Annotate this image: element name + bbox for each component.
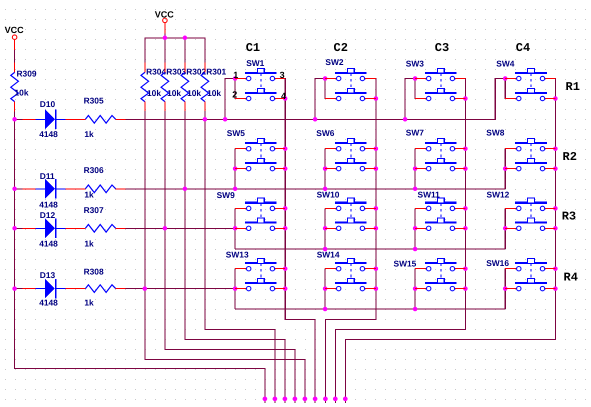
junction C3/SW15 pin3 (463, 266, 468, 271)
switch SW7 (415, 139, 465, 171)
diode D11 (23, 179, 76, 199)
junction row3-link/SW11 (413, 247, 418, 252)
svg-text:1: 1 (233, 70, 238, 80)
svg-text:1k: 1k (84, 239, 94, 249)
wire common vertical (14, 119, 265, 403)
resistor R305 (76, 116, 126, 124)
svg-text:SW3: SW3 (406, 58, 424, 68)
switch SW6 (325, 139, 376, 171)
junction SW7 pin2 (413, 166, 418, 171)
junction SW3 pin1 (413, 76, 418, 81)
junction C2/SW6 pin3 (374, 146, 379, 151)
wire common to D10 (15, 118, 23, 120)
junction row1/R301 (203, 117, 208, 122)
junction C3/SW11 pin3 (463, 206, 468, 211)
junction C2/SW6 pin4 (374, 166, 379, 171)
power VCC (left) (12, 35, 17, 50)
switch SW16 (505, 259, 555, 291)
svg-text:10k: 10k (147, 88, 161, 98)
wire SW14 left link (324, 269, 326, 309)
svg-text:SW14: SW14 (317, 250, 340, 260)
junction SW9 pin2 (233, 226, 238, 231)
diode D12 (23, 219, 76, 239)
junction VCC-bus/R303 (163, 36, 168, 41)
wire SW4 left link (495, 78, 506, 120)
svg-text:SW15: SW15 (394, 259, 417, 269)
junction C2/SW10 pin3 (374, 206, 379, 211)
svg-text:4148: 4148 (39, 199, 58, 209)
switch SW10 (325, 198, 376, 230)
junction C2/SW14 pin3 (374, 266, 379, 271)
junction row2/R302 (183, 187, 188, 192)
junction row1/SW3 (403, 117, 408, 122)
svg-text:C1: C1 (246, 41, 260, 55)
junction VCC-bus/R302 (183, 36, 188, 41)
svg-text:R307: R307 (84, 205, 104, 215)
svg-text:SW16: SW16 (486, 258, 509, 268)
svg-text:SW4: SW4 (496, 58, 514, 68)
svg-text:SW8: SW8 (486, 127, 504, 137)
switch SW1 (235, 68, 285, 100)
terminal col1 (313, 397, 318, 402)
terminal col2 (323, 397, 328, 402)
switch SW3 (415, 68, 465, 100)
svg-text:R301: R301 (206, 66, 226, 76)
terminal common (263, 397, 268, 402)
junction C3/SW3 pin4 (463, 96, 468, 101)
switch SW13 (235, 259, 285, 291)
wire row4 (126, 288, 236, 290)
switch SW4 (505, 68, 555, 100)
wire R309 to node (14, 112, 16, 120)
junction C4/SW12 pin4 (553, 226, 558, 231)
wire SW1 left link (225, 78, 236, 120)
wire R302 line to terminal (184, 111, 285, 403)
svg-text:SW12: SW12 (487, 190, 510, 200)
wire R304 line to terminal (144, 111, 305, 403)
svg-text:R3: R3 (562, 210, 576, 224)
diode D10 (23, 110, 76, 130)
wire SW7 left link (414, 149, 416, 189)
svg-text:C4: C4 (516, 41, 530, 55)
svg-text:SW1: SW1 (246, 58, 264, 68)
switch SW15 (415, 259, 465, 291)
wire column C4 (345, 78, 556, 403)
junction SW6 pin2 (323, 166, 328, 171)
junction C1/SW9 pin4 (283, 226, 288, 231)
svg-text:D12: D12 (40, 210, 56, 220)
resistor R302 (181, 62, 189, 111)
wire SW8 left link (504, 149, 506, 189)
wire row2 (126, 188, 506, 190)
svg-text:10k: 10k (207, 88, 221, 98)
svg-text:D13: D13 (40, 270, 56, 280)
terminal row2 (283, 397, 288, 402)
svg-text:R2: R2 (563, 150, 577, 164)
wire R301 line to terminal (204, 111, 275, 403)
wire row3 (126, 227, 236, 229)
svg-text:SW7: SW7 (406, 127, 424, 137)
junction row3-link/SW10 (323, 247, 328, 252)
svg-text:1k: 1k (84, 298, 94, 308)
svg-text:1k: 1k (84, 190, 94, 200)
terminal col3 (333, 397, 338, 402)
wire common to D11 (15, 188, 23, 190)
wire SW11 left link (414, 208, 416, 249)
resistor R308 (76, 285, 126, 293)
junction SW13 pin2 (233, 286, 238, 291)
resistor R309 (11, 62, 19, 111)
svg-text:SW6: SW6 (316, 128, 334, 138)
wire VCC stem (164, 34, 166, 38)
resistor R301 (201, 62, 209, 111)
wire column C1 (285, 78, 316, 403)
junction C3/SW7 pin4 (463, 166, 468, 171)
svg-text:R1: R1 (566, 80, 580, 94)
junction C2/SW2 pin4 (374, 96, 379, 101)
svg-text:SW5: SW5 (227, 128, 245, 138)
svg-text:R304: R304 (146, 66, 166, 76)
junction C4/SW16 pin4 (553, 286, 558, 291)
wire R303 top (164, 38, 166, 63)
junction row1/SW1 (223, 117, 228, 122)
terminal row1 (273, 397, 278, 402)
svg-text:SW11: SW11 (418, 190, 441, 200)
power VCC (top) (163, 18, 168, 33)
junction row3/R303 (163, 226, 168, 231)
junction SW12 pin2 (503, 226, 508, 231)
junction common/D13 (12, 286, 17, 291)
svg-text:SW2: SW2 (325, 57, 343, 67)
junction C2/SW14 pin4 (374, 286, 379, 291)
svg-text:2: 2 (232, 90, 237, 100)
junction C4/SW12 pin3 (553, 206, 558, 211)
junction C3/SW7 pin3 (463, 146, 468, 151)
junction row2/SW6 (323, 187, 328, 192)
wire column C3 (335, 78, 466, 403)
svg-text:SW9: SW9 (217, 190, 235, 200)
svg-text:4148: 4148 (39, 129, 58, 139)
svg-text:C2: C2 (334, 41, 348, 55)
wire SW15 left link (414, 269, 416, 309)
junction C1/SW5 pin4 (283, 166, 288, 171)
resistor R306 (76, 185, 126, 193)
switch SW5 (235, 139, 285, 171)
wire SW3 left link (405, 78, 416, 120)
switch SW14 (325, 259, 376, 291)
svg-text:R4: R4 (564, 271, 578, 285)
junction C4/SW4 pin4 (553, 96, 558, 101)
junction row2/SW7 (413, 187, 418, 192)
junction SW8 pin2 (503, 166, 508, 171)
wire SW6 left link (324, 149, 326, 189)
junction SW1 pin1 (233, 76, 238, 81)
junction C2/SW10 pin4 (374, 226, 379, 231)
junction C3/SW11 pin4 (463, 226, 468, 231)
junction C1/SW9 pin3 (283, 206, 288, 211)
junction SW11 pin2 (413, 226, 418, 231)
switch SW11 (415, 198, 465, 230)
diode D13 (23, 279, 76, 299)
switch SW8 (505, 139, 555, 171)
wire row3 link (235, 248, 505, 250)
wire row1 (126, 118, 496, 120)
junction row2/SW5 (233, 187, 238, 192)
svg-text:VCC: VCC (5, 25, 25, 35)
wire common to D12 (15, 227, 23, 229)
wire SW13 left link (234, 269, 236, 309)
terminal row3 (293, 397, 298, 402)
wire row4 link (235, 308, 505, 310)
junction SW15 pin2 (413, 286, 418, 291)
svg-text:R308: R308 (84, 267, 104, 277)
wire R302 top (184, 38, 186, 63)
svg-text:4: 4 (281, 91, 286, 101)
junction C4/SW8 pin3 (553, 146, 558, 151)
svg-text:10k: 10k (15, 88, 29, 98)
svg-text:R303: R303 (166, 66, 186, 76)
junction row4-link/SW14 (323, 307, 328, 312)
switch SW2 (325, 68, 376, 100)
junction SW14 pin2 (323, 286, 328, 291)
svg-text:4148: 4148 (39, 239, 58, 249)
wire SW12 left link (504, 208, 506, 249)
svg-text:R306: R306 (84, 165, 104, 175)
svg-text:R309: R309 (17, 69, 37, 79)
junction C4/SW16 pin3 (553, 266, 558, 271)
junction SW5 pin2 (233, 166, 238, 171)
junction C1/SW13 pin3 (283, 266, 288, 271)
svg-text:D11: D11 (40, 171, 55, 181)
resistor R304 (141, 62, 149, 111)
junction C1/SW13 pin4 (283, 286, 288, 291)
svg-text:SW10: SW10 (317, 189, 340, 199)
junction SW4 pin1 (503, 76, 508, 81)
junction common/D12 (12, 226, 17, 231)
svg-text:3: 3 (280, 70, 285, 80)
resistor R303 (161, 62, 169, 111)
wire SW16 left link (504, 269, 506, 309)
terminal row4 (303, 397, 308, 402)
svg-text:10k: 10k (187, 88, 201, 98)
junction common/D11 (12, 187, 17, 192)
terminal col4 (343, 397, 348, 402)
junction SW16 pin2 (503, 286, 508, 291)
svg-text:1k: 1k (84, 129, 94, 139)
junction SW2 pin1 (323, 76, 328, 81)
svg-text:R302: R302 (186, 66, 206, 76)
junction common/D10 (12, 117, 17, 122)
junction C1/SW5 pin3 (283, 146, 288, 151)
junction row4-link/SW15 (413, 307, 418, 312)
resistor R307 (76, 225, 126, 233)
wire SW10 left link (324, 208, 326, 249)
wire R303 line to terminal (164, 111, 295, 403)
junction C3/SW15 pin4 (463, 286, 468, 291)
wire column C2 (325, 78, 377, 403)
junction row4/R304 (143, 286, 148, 291)
svg-text:4148: 4148 (39, 298, 58, 308)
wire common to D13 (15, 288, 23, 290)
switch SW12 (505, 198, 555, 230)
junction row1/SW2 (313, 117, 318, 122)
svg-text:C3: C3 (435, 41, 449, 55)
wire SW9 left link (234, 208, 236, 249)
wire pullup bus (144, 37, 205, 63)
wire SW2 left link (315, 78, 326, 120)
wire VCC to R309 (14, 50, 16, 62)
svg-text:VCC: VCC (155, 9, 175, 19)
junction C1/SW1 pin4 (283, 96, 288, 101)
junction C4/SW8 pin4 (553, 166, 558, 171)
svg-text:D10: D10 (40, 99, 56, 109)
svg-text:10k: 10k (167, 88, 181, 98)
wire SW5 left link (234, 149, 236, 189)
svg-text:SW13: SW13 (226, 249, 249, 259)
junction SW10 pin2 (323, 226, 328, 231)
svg-text:R305: R305 (84, 96, 104, 106)
switch SW9 (235, 198, 285, 230)
